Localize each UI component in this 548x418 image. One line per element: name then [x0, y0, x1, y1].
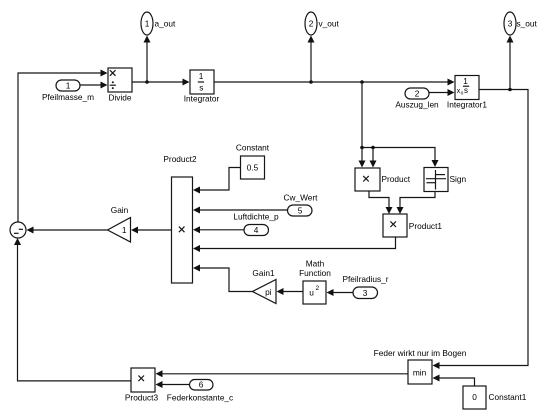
inport 5 Cw_Wert — [284, 192, 319, 216]
svg-text:a_out: a_out — [155, 19, 176, 29]
inport 6 Federkonstante_c — [167, 380, 233, 403]
block Integrator — [184, 70, 220, 104]
svg-text:Divide: Divide — [108, 92, 131, 102]
sum block (circle, - -) — [10, 222, 26, 238]
wire Constant -> Product2 input 1 — [193, 168, 241, 194]
svg-text:1: 1 — [145, 19, 150, 29]
svg-text:Constant: Constant — [236, 142, 270, 152]
block Constant1 (0) — [463, 386, 527, 409]
svg-text:Math: Math — [306, 258, 325, 268]
outport 1 a_out — [141, 12, 176, 35]
wire Auszug_len -> Integrator1 input 2 — [429, 89, 455, 96]
svg-text:Product: Product — [382, 174, 411, 184]
inport 4 Luftdichte_p — [233, 212, 279, 236]
block Gain1 (triangle, pi) — [252, 268, 276, 304]
svg-text:2: 2 — [309, 19, 314, 29]
junction branch to Sign — [360, 146, 438, 167]
wire Gain1 -> Product2 input 5 — [193, 265, 253, 292]
junction a_out branch — [144, 36, 151, 84]
block Product3 — [125, 368, 159, 403]
svg-text:2: 2 — [415, 89, 420, 99]
wire Luftdichte_p -> Product2 input 3 — [193, 226, 244, 233]
wire Product2 -> Gain — [131, 227, 172, 234]
svg-text:Product2: Product2 — [163, 154, 197, 164]
wire Product -> Product1 input 1 — [369, 191, 393, 214]
wire Pfeilradius_r -> Math Function — [327, 289, 354, 296]
svg-text:s: s — [464, 86, 468, 95]
svg-text:min: min — [413, 368, 427, 378]
block Product1 — [383, 214, 442, 237]
svg-text:Cw_Wert: Cw_Wert — [284, 192, 319, 202]
svg-text:Integrator: Integrator — [184, 94, 220, 104]
svg-text:5: 5 — [298, 206, 303, 216]
svg-text:Pfeilmasse_m: Pfeilmasse_m — [42, 92, 94, 102]
outport 2 v_out — [305, 12, 339, 35]
wire Product1 -> Product2 input 4 — [193, 237, 396, 252]
svg-text:Gain: Gain — [111, 205, 129, 215]
svg-text:Gain1: Gain1 — [252, 268, 275, 278]
block Sign — [424, 168, 466, 192]
svg-text:Federkonstante_c: Federkonstante_c — [167, 393, 233, 403]
junction v_out branch — [308, 36, 315, 84]
block Product2 — [163, 154, 197, 283]
wire Constant1 -> min input 2 — [433, 375, 475, 387]
svg-text:Feder wirkt nur im Bogen: Feder wirkt nur im Bogen — [374, 348, 467, 358]
svg-text:Constant1: Constant1 — [489, 392, 527, 402]
junction branch to Product input 2 — [370, 146, 377, 168]
svg-text:u: u — [309, 287, 314, 297]
block Divide — [108, 68, 132, 102]
svg-text:s_out: s_out — [517, 19, 538, 29]
outport 3 s_out — [504, 12, 537, 35]
block Integrator1 — [447, 76, 488, 110]
wire Divide -> Integrator — [132, 79, 190, 86]
svg-text:1: 1 — [122, 225, 127, 235]
svg-text:Pfeilradius_r: Pfeilradius_r — [342, 274, 388, 284]
svg-text:6: 6 — [199, 380, 204, 390]
block Constant (0.5) — [236, 142, 270, 179]
wire Integrator1 -> min input 1 — [433, 90, 529, 370]
svg-text:Integrator1: Integrator1 — [447, 100, 488, 110]
svg-text:pi: pi — [265, 287, 272, 297]
svg-text:0.5: 0.5 — [247, 163, 259, 173]
junction branch down to Product — [359, 80, 366, 167]
svg-text:1: 1 — [66, 81, 71, 91]
svg-text:1: 1 — [199, 71, 204, 81]
svg-text:Function: Function — [299, 268, 331, 278]
wire Integrator -> Integrator1 input 1 — [214, 79, 455, 86]
inport 2 Auszug_len — [395, 88, 439, 110]
wire min -> Product3 input 1 — [156, 370, 409, 377]
svg-text:2: 2 — [315, 285, 319, 292]
svg-text:v_out: v_out — [319, 19, 340, 29]
wire sum output -> Divide input 1 — [18, 70, 108, 223]
block Math Function (u^2) — [299, 258, 331, 304]
svg-text:4: 4 — [254, 225, 259, 235]
svg-text:1: 1 — [463, 76, 468, 86]
inport 3 Pfeilradius_r — [342, 274, 388, 298]
wire Cw_Wert -> Product2 input 2 — [193, 207, 288, 214]
wire Gain -> sum input 1 — [27, 227, 108, 234]
svg-text:0: 0 — [472, 392, 477, 402]
block min (MinMax) — [374, 348, 467, 384]
svg-text:Product1: Product1 — [409, 221, 443, 231]
svg-text:Sign: Sign — [450, 174, 467, 184]
svg-text:Luftdichte_p: Luftdichte_p — [233, 212, 279, 222]
svg-text:Auszug_len: Auszug_len — [395, 100, 439, 110]
svg-text:s: s — [199, 83, 203, 93]
svg-text:Product3: Product3 — [125, 393, 159, 403]
block Gain (triangle, 1) — [108, 205, 131, 242]
wire Product3 -> sum input 2 — [14, 238, 131, 381]
block Product — [355, 168, 411, 191]
wire Federkonstante_c -> Product3 input 2 — [156, 381, 190, 388]
wire Math Function -> Gain1 — [277, 288, 304, 295]
wire Pfeilmasse_m -> Divide input 2 — [80, 82, 108, 89]
junction s_out branch — [507, 36, 514, 92]
svg-text:3: 3 — [363, 288, 368, 298]
inport 1 Pfeilmasse_m — [42, 80, 94, 102]
wire Sign -> Product1 input 2 — [397, 192, 436, 215]
svg-text:3: 3 — [508, 19, 513, 29]
